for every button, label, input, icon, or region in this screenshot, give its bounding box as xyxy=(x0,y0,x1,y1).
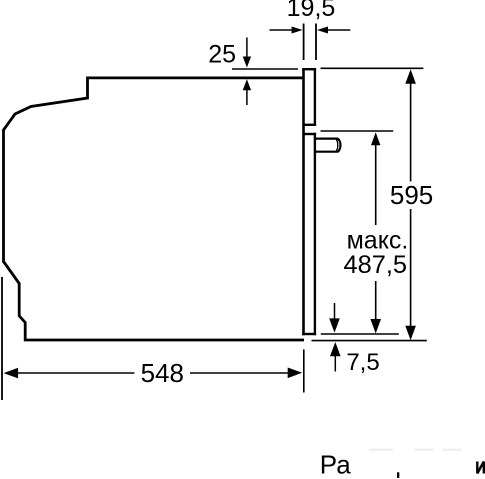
svg-text:25: 25 xyxy=(208,40,236,68)
svg-text:Ра: Ра xyxy=(320,450,351,479)
dim 548 line right part xyxy=(190,372,292,374)
svg-text:7,5: 7,5 xyxy=(346,349,379,376)
dim 548 right arrow xyxy=(288,368,303,379)
dim 487,5 line upper xyxy=(375,142,377,225)
dim 7,5 down arrow xyxy=(334,303,336,322)
dim 595 bottom arrow xyxy=(405,326,416,341)
caption fragment м (clipped) xyxy=(477,462,484,474)
dim 548 line left part xyxy=(14,372,134,374)
dim 595 top extension line xyxy=(321,67,424,69)
door panel top edge xyxy=(302,68,316,70)
door panel right edge upper xyxy=(314,68,316,126)
dim 595 line upper xyxy=(410,80,412,182)
svg-text:487,5: 487,5 xyxy=(344,251,408,279)
dim 25 down arrow xyxy=(246,38,248,59)
dim 487,5 top extension line xyxy=(321,130,394,132)
door lower section top edge xyxy=(304,133,317,135)
dim 595 line lower xyxy=(410,209,412,331)
dim 548 left arrow xyxy=(4,368,19,379)
knob inner arc xyxy=(336,140,338,151)
svg-text:595: 595 xyxy=(390,180,433,210)
door panel right edge lower xyxy=(314,133,316,335)
dim 25 reference line xyxy=(232,68,298,70)
knob (door handle) xyxy=(316,139,340,152)
svg-text:19,5: 19,5 xyxy=(287,0,336,22)
dim 548 left extension line xyxy=(1,277,3,400)
dim 595 top arrow xyxy=(405,69,416,84)
dim 19,5 left arrow xyxy=(270,29,295,31)
door bottom edge xyxy=(302,333,316,335)
dim 487,5 line lower xyxy=(375,281,377,325)
dim 7,5 up arrow xyxy=(334,352,336,372)
door panel bottom edge xyxy=(304,124,317,126)
dim 19,5 right extension line xyxy=(315,24,317,61)
dim 487,5 top arrow xyxy=(371,132,380,145)
dim 19,5 right arrow xyxy=(326,29,351,31)
dim 19,5 left extension line xyxy=(303,24,305,61)
body bottom extension line (line B) xyxy=(312,340,427,342)
svg-text:548: 548 xyxy=(141,358,184,388)
faded caption smudges xyxy=(369,449,393,452)
dim 25 up arrow xyxy=(246,89,248,105)
oven body outline xyxy=(4,78,305,340)
caption fragment descender of р xyxy=(397,472,399,478)
door front left edge xyxy=(302,69,305,335)
panel bottom extension line (line A) xyxy=(321,333,399,335)
dim 548 right extension line xyxy=(303,349,305,392)
dim 487,5 bottom arrow xyxy=(370,319,381,334)
